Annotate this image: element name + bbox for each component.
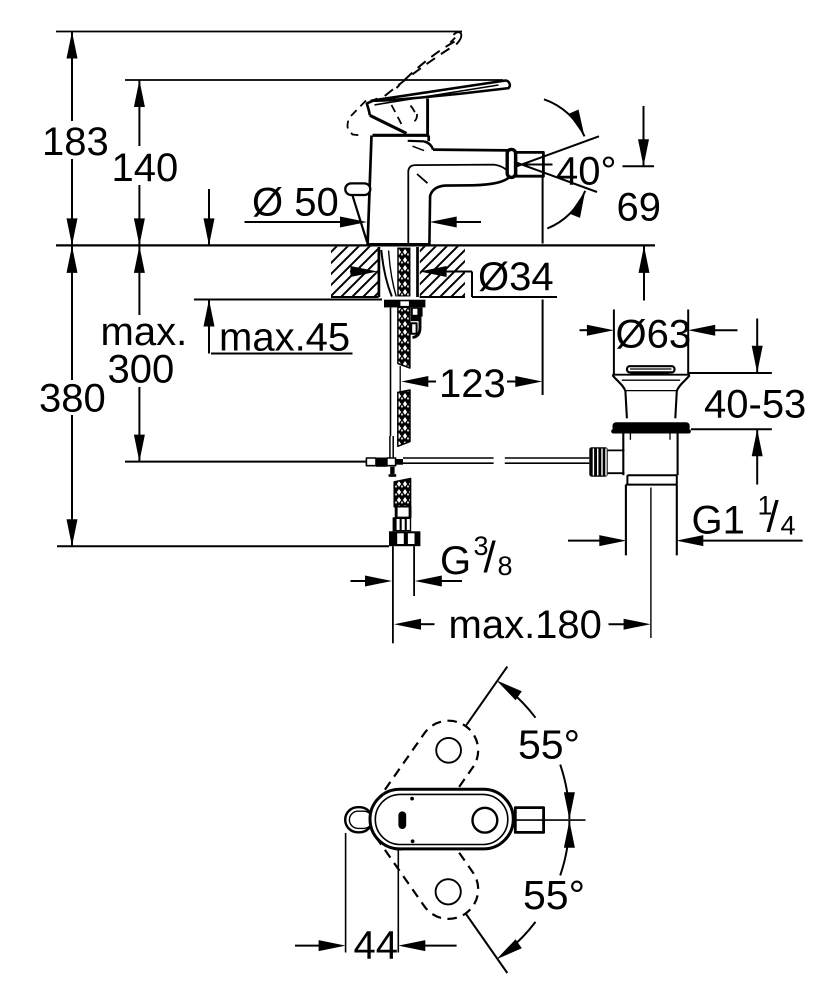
svg-text:40°: 40° (556, 150, 617, 194)
dimension 40 degrees (514, 99, 617, 228)
second hose stub (411, 307, 423, 337)
extension line top 140 (125, 79, 503, 81)
crimp section (393, 517, 412, 531)
dimension 183 (42, 32, 109, 246)
svg-text:8: 8 (498, 551, 513, 581)
pop-up rod knob (345, 183, 370, 195)
svg-text:69: 69 (617, 186, 662, 230)
dimension 140 (112, 80, 179, 245)
svg-text:40-53: 40-53 (704, 383, 806, 427)
svg-text:380: 380 (39, 377, 106, 421)
rod coupling (366, 458, 403, 477)
hose end fitting (395, 507, 410, 518)
swivel range dashed capsule upper (370, 721, 478, 850)
dimension G 1 1/4 (568, 491, 803, 547)
dimension 123 (401, 177, 542, 406)
center line (top view) (516, 819, 586, 821)
hole edge left (378, 247, 381, 297)
knob stem (608, 450, 625, 473)
drain center line (650, 488, 652, 639)
svg-text:300: 300 (108, 348, 175, 392)
dimension max.180 (394, 603, 651, 647)
extension line top 183 (56, 31, 462, 33)
svg-text:Ø34: Ø34 (478, 255, 554, 299)
handle raised position dashed lever (379, 32, 462, 101)
deck hatched section right (420, 247, 465, 297)
dimension G 3/8 (351, 531, 513, 587)
spout root step (424, 141, 433, 149)
raised handle dashed contours inside cap (392, 105, 418, 127)
pop-up rod upper stem (353, 196, 368, 243)
waste body (623, 434, 677, 485)
counter/deck top line (56, 244, 655, 246)
svg-text:Ø63: Ø63 (616, 312, 692, 356)
svg-text:140: 140 (112, 146, 179, 190)
flexible hose segment 3 (394, 479, 410, 507)
deck bottom line (331, 296, 465, 298)
spout top edge (433, 148, 509, 151)
waste tailpipe (626, 485, 677, 556)
waste flange (611, 422, 691, 433)
svg-text:Ø 50: Ø 50 (252, 181, 339, 225)
swivel circle upper (436, 738, 461, 763)
dimension 380 (39, 245, 106, 546)
spout inner contour (408, 165, 509, 245)
svg-text:max.45: max.45 (219, 316, 350, 360)
svg-text:123: 123 (439, 362, 506, 406)
pop-up rod below deck (390, 307, 392, 436)
faucet body capsule (top view) (370, 789, 513, 849)
hole edge right (416, 247, 419, 297)
faucet base seat line (367, 243, 429, 246)
svg-text:44: 44 (354, 923, 399, 967)
chamfer line (417, 174, 428, 183)
dimension diameter 34 (350, 255, 557, 299)
waste plug cap (627, 366, 675, 374)
aerator outlet (516, 152, 543, 176)
svg-text:55°: 55° (523, 872, 585, 918)
dimension max.45 (194, 189, 382, 360)
svg-text:G1: G1 (692, 499, 745, 543)
rod/reference line max.300 bottom (125, 461, 367, 463)
flexible hose segment 2 (398, 390, 410, 446)
pop-up rod through deck (curved) (381, 250, 392, 297)
dimension 44 (295, 833, 457, 967)
handle raised position dashed cap outline (348, 101, 367, 136)
threaded shank through deck (398, 248, 410, 297)
swivel range dashed capsule lower (370, 790, 478, 919)
spout arm (408, 141, 511, 245)
dimension diameter 50 (245, 181, 482, 228)
spout underside (429, 176, 510, 245)
dimension max.300 (101, 245, 188, 461)
swivel circle lower (436, 879, 461, 904)
deck hatched section left (331, 247, 378, 297)
svg-text:55°: 55° (518, 722, 580, 768)
svg-text:/: / (767, 493, 780, 542)
svg-text:4: 4 (781, 511, 796, 541)
spout nozzle tip (507, 149, 515, 177)
spout outlet circle (top view) (473, 808, 498, 833)
svg-text:183: 183 (42, 120, 109, 164)
hose thread pipe (393, 546, 414, 643)
flexible hose segment 1 (398, 307, 410, 368)
dimension 55 degrees upper (466, 667, 580, 820)
horizontal rod right (double line) (403, 458, 589, 463)
svg-text:/: / (484, 533, 497, 582)
dimension diameter 63 (580, 310, 738, 375)
cartridge mark (398, 811, 406, 829)
spout top shoulder line (408, 140, 424, 143)
mounting nut (384, 300, 425, 308)
spout outlet rectangle (top view) (515, 808, 543, 833)
handle lever solid (372, 81, 510, 105)
pop-up rod tab (top view) (345, 807, 372, 832)
waste knurled knob (589, 447, 607, 477)
waste funnel (612, 375, 690, 419)
faucet body (368, 135, 429, 245)
dimension 40-53 (688, 319, 806, 485)
hose nut G3/8 (389, 531, 420, 546)
dimension 55 degrees lower (466, 821, 585, 973)
handle cap (367, 99, 429, 136)
extension line bottom 380 (57, 545, 389, 547)
dimension 69 (617, 106, 662, 301)
svg-text:max.180: max.180 (449, 603, 602, 647)
svg-text:G: G (440, 539, 471, 583)
index dot upper (410, 797, 414, 801)
faucet axis segment (399, 366, 401, 394)
index dot lower (411, 839, 415, 843)
